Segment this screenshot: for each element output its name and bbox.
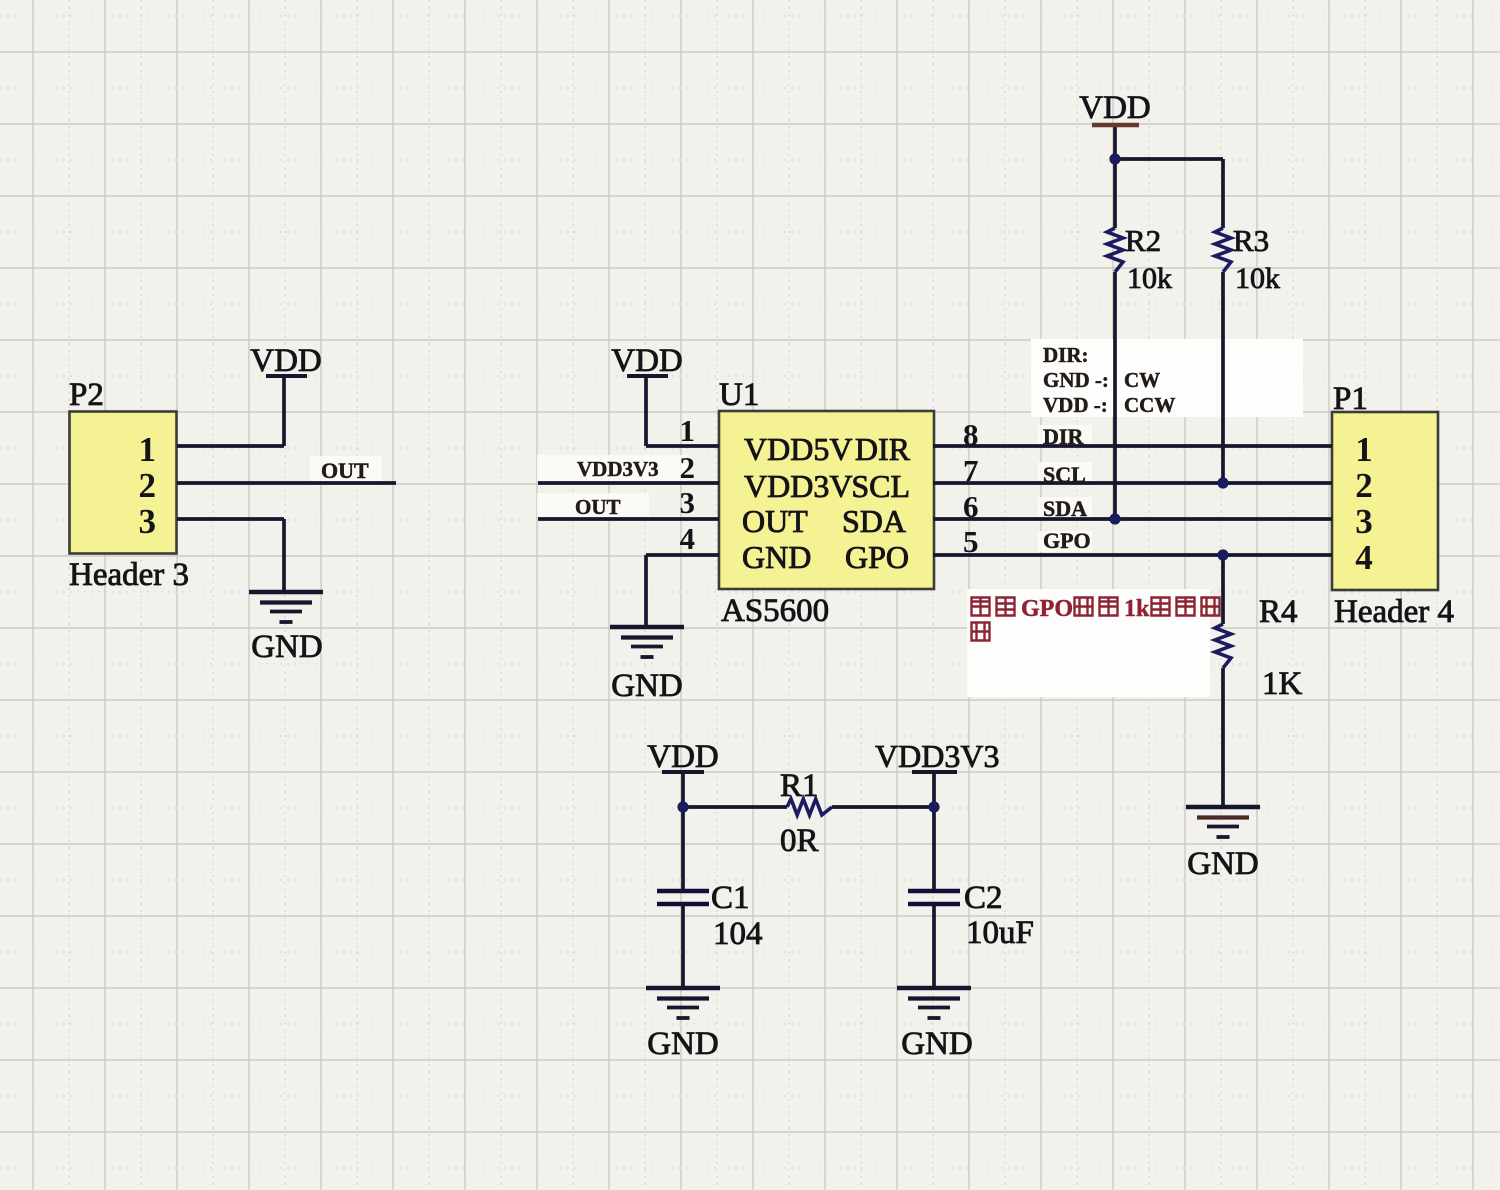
svg-text:2: 2 <box>139 466 157 505</box>
svg-text:VDD -:: VDD -: <box>1043 393 1108 417</box>
svg-text:VDD: VDD <box>1079 90 1151 126</box>
svg-text:C2: C2 <box>964 880 1003 916</box>
svg-text:U1: U1 <box>719 377 759 413</box>
svg-text:4: 4 <box>680 521 696 556</box>
svg-text:GND: GND <box>251 629 323 665</box>
svg-text:10uF: 10uF <box>966 915 1034 951</box>
svg-text:OUT: OUT <box>321 458 369 483</box>
svg-text:VDD3V3: VDD3V3 <box>875 738 999 774</box>
svg-text:R2: R2 <box>1125 223 1161 258</box>
svg-text:SCL: SCL <box>1043 462 1086 487</box>
svg-text:R1: R1 <box>780 768 819 804</box>
svg-text:VDD3V: VDD3V <box>744 468 852 504</box>
svg-text:GPO: GPO <box>845 539 909 575</box>
svg-text:1K: 1K <box>1262 666 1303 702</box>
svg-text:7: 7 <box>963 453 979 488</box>
svg-text:P1: P1 <box>1333 381 1368 417</box>
svg-text:Header 4: Header 4 <box>1334 594 1454 630</box>
svg-text:GND: GND <box>647 1026 719 1062</box>
svg-text:10k: 10k <box>1127 262 1172 295</box>
svg-text:1: 1 <box>139 430 157 469</box>
svg-text:Header 3: Header 3 <box>69 557 189 593</box>
svg-text:DIR:: DIR: <box>1043 343 1089 367</box>
svg-text:8: 8 <box>963 417 979 452</box>
svg-text:GND: GND <box>611 668 683 704</box>
svg-text:3: 3 <box>680 485 696 520</box>
svg-text:GPO: GPO <box>1021 596 1073 622</box>
svg-text:C1: C1 <box>711 880 750 916</box>
svg-text:OUT: OUT <box>575 495 621 519</box>
svg-text:104: 104 <box>713 916 763 952</box>
svg-text:10k: 10k <box>1235 262 1280 295</box>
svg-text:AS5600: AS5600 <box>721 593 829 629</box>
svg-text:SDA: SDA <box>1043 496 1087 521</box>
svg-text:VDD3V3: VDD3V3 <box>577 457 659 481</box>
svg-text:GND: GND <box>1187 846 1259 882</box>
svg-text:2: 2 <box>680 450 696 485</box>
svg-text:R4: R4 <box>1259 594 1298 630</box>
svg-text:1: 1 <box>1355 430 1373 469</box>
svg-text:CCW: CCW <box>1124 393 1175 417</box>
svg-text:GND: GND <box>742 539 811 575</box>
svg-text:P2: P2 <box>69 377 104 413</box>
svg-text:R3: R3 <box>1233 223 1269 258</box>
svg-text:3: 3 <box>139 502 157 541</box>
svg-text:DIR: DIR <box>1043 424 1084 449</box>
svg-text:SCL: SCL <box>851 468 910 504</box>
svg-text:GND: GND <box>901 1026 973 1062</box>
svg-text:GND -:: GND -: <box>1043 368 1109 392</box>
svg-text:CW: CW <box>1124 368 1160 392</box>
svg-text:VDD: VDD <box>647 739 719 775</box>
svg-text:6: 6 <box>963 489 979 524</box>
svg-text:0R: 0R <box>780 823 819 859</box>
svg-text:2: 2 <box>1355 466 1373 505</box>
svg-text:3: 3 <box>1355 502 1373 541</box>
svg-text:VDD: VDD <box>250 343 322 379</box>
svg-text:VDD: VDD <box>611 343 683 379</box>
svg-text:1k: 1k <box>1124 596 1150 622</box>
svg-text:OUT: OUT <box>742 503 808 539</box>
svg-text:VDD5V: VDD5V <box>744 431 852 467</box>
svg-text:GPO: GPO <box>1043 528 1091 553</box>
svg-text:5: 5 <box>963 524 979 559</box>
svg-text:SDA: SDA <box>842 503 906 539</box>
svg-text:1: 1 <box>680 413 696 448</box>
svg-text:4: 4 <box>1355 538 1373 577</box>
svg-text:DIR: DIR <box>855 431 911 467</box>
